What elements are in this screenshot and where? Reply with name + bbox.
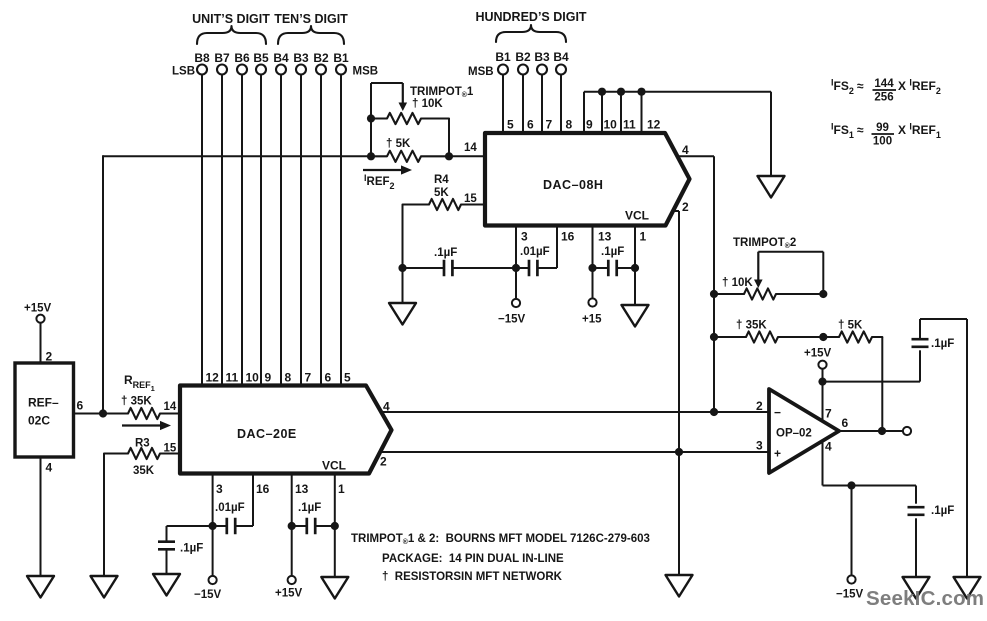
resistor R3 35K [104, 448, 180, 459]
terminal -15V (DAC-08H pin3) [512, 299, 520, 307]
terminal +15V (REF-02C) [36, 315, 44, 323]
brace unit's digit [197, 26, 266, 44]
wire left bypass cap to ground [166, 550, 168, 574]
terminal B1 [336, 65, 346, 75]
wire REF-02C pin6 to DAC-20E pin14 [74, 413, 129, 415]
wire DAC-08H pin 3 down [515, 226, 517, 299]
wire DAC-20E pin3 down [212, 474, 214, 576]
svg-text:PACKAGE: 14 PIN DUAL IN-LINE: PACKAGE: 14 PIN DUAL IN-LINE [382, 553, 564, 565]
junction bus pin11 [617, 88, 625, 96]
svg-text:5: 5 [507, 118, 514, 132]
svg-text:−15V: −15V [498, 314, 526, 326]
wire bus pins 9-12 [584, 91, 771, 93]
svg-text:.1µF: .1µF [434, 247, 457, 259]
terminal B4 (hundred's) [556, 65, 566, 75]
terminal B4 [276, 65, 286, 75]
junction pin1 node [631, 264, 639, 272]
svg-text:B4: B4 [273, 51, 289, 65]
wire op-amp output [839, 430, 903, 432]
svg-text:10: 10 [246, 371, 260, 385]
svg-text:B2: B2 [515, 50, 531, 64]
svg-text:3: 3 [521, 230, 528, 244]
junction pin13 cap node [588, 264, 596, 272]
terminal -15V (op-amp) [847, 575, 855, 583]
capacitor .1uF (DAC-08H left bypass) [443, 260, 446, 277]
svg-text:+15: +15 [582, 314, 602, 326]
svg-text:B3: B3 [534, 50, 550, 64]
wire bypass top to right rail [920, 318, 967, 320]
ground DAC-20E bypass [153, 574, 180, 596]
svg-text:99: 99 [876, 122, 889, 134]
wire trimpot2 wiper right side [822, 252, 824, 294]
wire R4 left down [402, 205, 404, 304]
ground output bypass [903, 577, 930, 599]
svg-text:+15V: +15V [804, 348, 832, 360]
wire DAC-20E pin16 down [252, 474, 254, 527]
wire IREF2 vertical feed x=103 [102, 155, 104, 413]
svg-text:MSB: MSB [468, 66, 494, 78]
junction bus pin12 [637, 88, 645, 96]
svg-text:4: 4 [682, 143, 689, 157]
wire bypass cap upper lead [919, 319, 921, 339]
svg-text:.1µF: .1µF [931, 338, 954, 350]
capacitor .1uF (DAC-20E pins 13-1) [305, 518, 308, 535]
wire DAC-08H pin16 down [556, 226, 558, 269]
svg-text:† 35K: † 35K [121, 396, 152, 408]
svg-text:35K: 35K [133, 465, 155, 477]
capacitor .1uF (DAC-20E left bypass) [158, 540, 175, 543]
junction trimpot1 10K left [367, 114, 375, 122]
svg-text:MSB: MSB [353, 66, 379, 78]
junction t2 10K left [710, 290, 718, 298]
svg-text:HUNDRED’S DIGIT: HUNDRED’S DIGIT [475, 10, 586, 24]
wire pin4 node to -15V terminal [851, 486, 853, 576]
svg-text:11: 11 [623, 118, 636, 132]
svg-text:REF–: REF– [28, 396, 59, 410]
terminal B1 (hundred's) [498, 65, 508, 75]
resistor R4 5K [403, 199, 487, 210]
junction R4/bypass [398, 264, 406, 272]
svg-text:.1µF: .1µF [298, 502, 321, 514]
junction t2 35K right [819, 333, 827, 341]
wire DAC-08H pin1 down [634, 226, 636, 306]
wire B4 to DAC-08H [560, 75, 562, 133]
svg-text:5: 5 [344, 371, 351, 385]
ground bus (pins 9-12) [758, 176, 785, 198]
wire DAC-08H pin stub to bus [601, 92, 603, 133]
junction 5K left [367, 152, 375, 160]
op-amp U-OP02 body [769, 389, 839, 473]
svg-text:4: 4 [46, 461, 53, 475]
wire DAC-08H pin 2 down to ground [678, 211, 680, 575]
wire DAC-08H pin stub to bus [583, 92, 585, 133]
wire IREF2 horizontal feed y=156 [103, 155, 371, 157]
svg-text:−15V: −15V [836, 589, 864, 601]
terminal +15 (DAC-08H pin13) [588, 298, 596, 306]
wire bypass cap lower lead [919, 350, 921, 381]
terminal B2 [316, 65, 326, 75]
terminal output [903, 427, 911, 435]
svg-text:6: 6 [77, 399, 84, 413]
wire left bypass to pin3 [403, 267, 444, 269]
capacitor .01uF (DAC-20E pins 3-16) [225, 518, 228, 535]
trimpot1 wiper arrow [402, 83, 404, 104]
junction pin3 cap node [512, 264, 520, 272]
wire B4 to DAC-20E [280, 75, 282, 386]
wire B8 to DAC-20E [201, 75, 203, 386]
svg-text:.01µF: .01µF [215, 502, 245, 514]
wire trimpot1 right side down [448, 119, 450, 157]
brace ten's digit [278, 26, 344, 44]
wire 5K to DAC-08H pin 14 [449, 155, 486, 157]
junction pin6 / feed line [99, 409, 107, 417]
terminal B3 (hundred's) [537, 65, 547, 75]
junction +15V node [818, 378, 826, 386]
junction t2 10K right [819, 290, 827, 298]
svg-text:.1µF: .1µF [601, 246, 624, 258]
svg-text:7: 7 [305, 371, 312, 385]
junction op-amp inverting node [710, 408, 718, 416]
junction pin3 node [209, 522, 217, 530]
svg-text:256: 256 [874, 92, 893, 104]
svg-text:† 5K: † 5K [386, 138, 411, 150]
resistor 35K t2 [714, 331, 823, 342]
op-amp U-DAC20E body [180, 386, 392, 474]
wire DAC-08H pin 2 stub [672, 210, 679, 212]
wire pin4 horizontal [823, 485, 917, 487]
svg-text:−: − [774, 406, 781, 420]
svg-text:11: 11 [226, 371, 239, 385]
svg-text:16: 16 [561, 230, 575, 244]
junction non-inverting node [675, 448, 683, 456]
svg-text:DAC–08H: DAC–08H [543, 178, 603, 192]
svg-text:15: 15 [464, 193, 477, 205]
svg-text:VCL: VCL [625, 209, 649, 223]
svg-text:1: 1 [338, 482, 345, 496]
svg-text:† 5K: † 5K [838, 320, 863, 332]
wire +15V to REF-02C pin2 [40, 323, 42, 363]
svg-text:3: 3 [756, 439, 763, 453]
svg-text:7: 7 [825, 407, 832, 421]
ground R4 bypass [389, 303, 416, 325]
svg-text:15: 15 [164, 443, 177, 455]
junction pin13 node [288, 522, 296, 530]
capacitor .01uF (DAC-08H pins 3-16) [528, 260, 531, 277]
svg-text:10: 10 [604, 118, 618, 132]
wire B1 to DAC-20E [340, 75, 342, 386]
svg-text:14: 14 [464, 142, 477, 154]
svg-text:100: 100 [873, 136, 892, 148]
svg-text:B2: B2 [313, 51, 329, 65]
trimpot R-t1 10K [371, 113, 449, 124]
svg-text:B1: B1 [333, 51, 349, 65]
svg-text:.1µF: .1µF [931, 505, 954, 517]
svg-text:DAC–20E: DAC–20E [237, 427, 297, 441]
junction t2 35K left [710, 333, 718, 341]
svg-text:2: 2 [756, 399, 763, 413]
svg-text:LSB: LSB [172, 66, 195, 78]
svg-text:SeekIC.com: SeekIC.com [866, 587, 984, 610]
wire B7 to DAC-20E [221, 75, 223, 386]
terminal +15V (DAC-20E pin13) [288, 576, 296, 584]
capacitor .1uF (+15V bypass) [912, 338, 929, 341]
wire B1 to DAC-08H [502, 75, 504, 133]
svg-text:144: 144 [874, 78, 894, 90]
svg-text:B6: B6 [234, 51, 250, 65]
svg-text:† 10K: † 10K [412, 98, 443, 110]
svg-text:16: 16 [256, 482, 270, 496]
svg-text:+15V: +15V [24, 303, 52, 315]
ground right rail [954, 577, 981, 599]
trimpot R-t2 10K [714, 288, 823, 299]
svg-text:3: 3 [216, 482, 223, 496]
wire DAC-08H pin stub to bus [641, 92, 643, 133]
ground DAC-08H pin2 node [666, 575, 693, 597]
svg-text:13: 13 [295, 482, 309, 496]
svg-text:.1µF: .1µF [180, 543, 203, 555]
svg-text:1: 1 [640, 230, 647, 244]
wire 5K out down to output [881, 337, 883, 431]
wire B2 to DAC-20E [320, 75, 322, 386]
svg-text:−15V: −15V [194, 589, 222, 601]
wire DAC-20E pin13 down [291, 474, 293, 576]
capacitor .1uF (DAC-08H pins 13-1) [607, 260, 610, 277]
ground R3 [91, 576, 118, 598]
terminal -15V (DAC-20E pin3) [209, 576, 217, 584]
svg-text:12: 12 [206, 371, 220, 385]
svg-text:.01µF: .01µF [520, 246, 550, 258]
wire trimpot2 wiper top [758, 251, 823, 253]
wire left bypass cap down [166, 526, 168, 541]
wire pin3 to left bypass cap [167, 525, 213, 527]
wire pin4 vertical to op-amp input [713, 156, 715, 412]
wire B5 to DAC-20E [260, 75, 262, 386]
junction pin1 node [331, 522, 339, 530]
arrow IREF2 [363, 169, 403, 171]
svg-text:14: 14 [164, 401, 177, 413]
terminal B7 [217, 65, 227, 75]
wire B3 to DAC-20E [300, 75, 302, 386]
svg-text:† 35K: † 35K [736, 320, 767, 332]
svg-text:† RESISTORSIN MFT NETWORK: † RESISTORSIN MFT NETWORK [382, 571, 563, 583]
svg-text:4: 4 [825, 440, 832, 454]
svg-text:8: 8 [285, 371, 292, 385]
svg-text:B3: B3 [293, 51, 309, 65]
terminal B2 (hundred's) [518, 65, 528, 75]
svg-text:† 10K: † 10K [722, 277, 753, 289]
svg-text:VCL: VCL [322, 459, 346, 473]
svg-text:B1: B1 [495, 50, 511, 64]
wire trimpot1 wiper top [371, 82, 403, 84]
svg-text:TRIMPOT®1 & 2: BOURNS MFT MOD: TRIMPOT®1 & 2: BOURNS MFT MODEL 7126C-27… [351, 533, 650, 546]
svg-text:12: 12 [647, 118, 661, 132]
svg-text:B8: B8 [194, 51, 210, 65]
svg-text:UNIT’S DIGIT: UNIT’S DIGIT [192, 12, 270, 26]
voltage reference U-REF02C body [15, 363, 74, 457]
svg-text:+: + [774, 447, 781, 461]
svg-text:9: 9 [265, 371, 272, 385]
trimpot2 wiper arrow [757, 252, 759, 281]
wire DAC-08H pin 4 out [679, 155, 714, 157]
wire DAC-20E pin1 down [334, 474, 336, 578]
wire B6 to DAC-20E [241, 75, 243, 386]
terminal B6 [237, 65, 247, 75]
resistor 5K t2 out [823, 331, 882, 342]
terminal B8 [197, 65, 207, 75]
wire REF-02C pin4 to ground [40, 457, 42, 576]
junction pin4 node [847, 481, 855, 489]
wire bus down to ground [770, 92, 772, 176]
svg-text:R4: R4 [434, 174, 449, 186]
terminal B3 [296, 65, 306, 75]
resistor 5K t1 series [371, 151, 449, 162]
wire DAC-20E pin2 to op-amp non-inverting input [380, 451, 770, 453]
svg-text:B7: B7 [214, 51, 230, 65]
wire DAC-20E pin4 to op-amp inverting input [381, 411, 769, 413]
ground DAC-20E pin1 [321, 577, 348, 599]
svg-text:TEN’S DIGIT: TEN’S DIGIT [274, 12, 348, 26]
wire B3 to DAC-08H [541, 75, 543, 133]
wire B2 to DAC-08H [522, 75, 524, 133]
svg-text:6: 6 [842, 416, 849, 430]
svg-text:6: 6 [325, 371, 332, 385]
terminal B5 [256, 65, 266, 75]
op-amp U-DAC08H body [485, 133, 690, 226]
svg-text:B4: B4 [553, 50, 569, 64]
capacitor .1uF (output bypass) [908, 506, 925, 509]
wire output bypass cap upper lead [915, 486, 917, 504]
svg-text:OP–02: OP–02 [776, 428, 812, 440]
wire right rail to ground [966, 319, 968, 577]
svg-text:2: 2 [380, 455, 387, 469]
svg-text:7: 7 [546, 118, 553, 132]
ground DAC-08H pin1 [622, 305, 649, 327]
svg-text:+15V: +15V [275, 588, 303, 600]
wire DAC-08H pin13 down [592, 226, 594, 299]
junction output/feedback [878, 427, 886, 435]
resistor RREF1 35K [103, 408, 180, 419]
brace hundred's digit [496, 25, 566, 42]
wire output bypass cap to ground [915, 518, 917, 577]
terminal +15V (op-amp) [818, 361, 826, 369]
wire op-amp pin4 down [822, 441, 824, 486]
svg-text:B5: B5 [253, 51, 269, 65]
ground REF-02C [27, 576, 54, 598]
svg-text:9: 9 [586, 118, 593, 132]
svg-text:13: 13 [598, 230, 612, 244]
junction 5K right [445, 152, 453, 160]
wire +15V down to pin7 [822, 369, 824, 421]
svg-text:8: 8 [566, 118, 573, 132]
svg-text:6: 6 [527, 118, 534, 132]
svg-text:5K: 5K [434, 187, 449, 199]
wire R3 to ground [103, 454, 105, 577]
arrow IREF1 current [122, 424, 162, 426]
junction bus pin10 [598, 88, 606, 96]
svg-text:02C: 02C [28, 414, 50, 428]
wire +15V to bypass cap [823, 381, 921, 383]
wire DAC-08H pin stub to bus [620, 92, 622, 133]
svg-text:2: 2 [682, 200, 689, 214]
wire trimpot1 left side [370, 83, 372, 156]
